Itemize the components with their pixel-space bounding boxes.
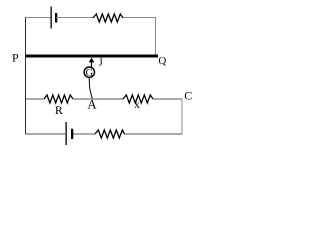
potentiometer wire P-Q (thick bar) [26,55,159,58]
svg-text:P: P [12,51,19,65]
wire: bottom rail, battery to resistor [72,133,95,135]
resistor R [44,95,73,117]
svg-text:x: x [134,99,140,111]
svg-text:J: J [99,58,103,69]
battery (bottom cell) [66,122,74,145]
wire: top rail, left segment to battery [26,17,52,19]
wire: middle row, resistor x to node C corner [153,98,183,100]
svg-text:G: G [85,68,93,79]
resistor (top series resistor) [93,14,123,22]
wire: galvanometer to node A [89,78,92,99]
wire: middle row, R to node A to resistor x [73,98,123,100]
wire: right vertical drop to Q [155,18,157,56]
svg-text:Q: Q [158,55,166,67]
galvanometer G [84,67,94,79]
resistor x [123,95,153,111]
svg-text:R: R [55,103,63,117]
wire: top rail, resistor to top-right corner [123,17,156,19]
wire: bottom rail, left segment to left bus [26,133,67,135]
wire: right vertical from C down to bottom rail [181,99,183,135]
svg-text:C: C [184,89,192,103]
wire: top rail, battery to resistor [56,17,93,19]
wire: middle row, left bus to resistor R [26,98,45,100]
jockey J (arrow touching wire) [89,58,95,67]
wire: bottom rail, right segment to resistor [125,133,183,135]
svg-text:A: A [87,98,97,112]
wire: left vertical bus from top rail through P down to bottom rail [25,17,27,135]
battery (top cell) [51,7,58,29]
resistor (bottom series resistor) [95,130,125,138]
